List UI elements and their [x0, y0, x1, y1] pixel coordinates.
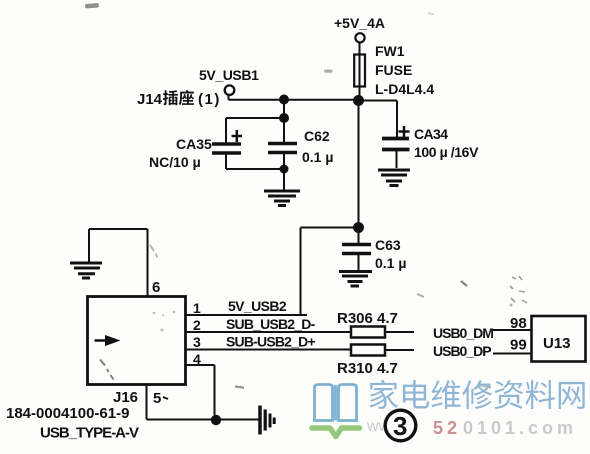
wire [229, 95, 360, 100]
ground [378, 170, 410, 186]
wire [359, 101, 397, 139]
svg-text:J16: J16 [113, 389, 138, 406]
svg-text:R310 4.7: R310 4.7 [337, 360, 398, 377]
svg-text:0.1 µ: 0.1 µ [375, 255, 406, 271]
pin 5 [147, 385, 259, 420]
svg-text:5V_USB1: 5V_USB1 [199, 67, 259, 83]
connector J16 [88, 297, 186, 407]
ground [264, 191, 300, 206]
svg-text:0.1 µ: 0.1 µ [302, 149, 333, 165]
svg-text:+5V_4A: +5V_4A [334, 15, 385, 31]
pin 6 [89, 229, 160, 297]
capacitor CA35 [149, 118, 284, 170]
svg-text:99: 99 [510, 337, 527, 354]
wire [358, 101, 360, 228]
pin 4 [186, 351, 215, 420]
wire [283, 99, 285, 118]
svg-text:USB0_DM: USB0_DM [433, 325, 493, 341]
junction [280, 165, 289, 174]
resistor R306 [337, 310, 414, 338]
wire [301, 228, 359, 316]
svg-text:5: 5 [153, 390, 161, 407]
svg-text:SUB_USB2_D-: SUB_USB2_D- [226, 316, 316, 332]
ground [339, 272, 372, 287]
svg-text:CA34: CA34 [414, 126, 448, 142]
pin 1 net 5V_USB2 [186, 298, 307, 316]
svg-text:6: 6 [152, 279, 160, 296]
junction [353, 95, 364, 106]
svg-text:C63: C63 [375, 237, 401, 253]
fuse FW1 [354, 43, 434, 97]
svg-text:FW1: FW1 [375, 43, 405, 59]
svg-text:(1): (1) [198, 91, 221, 108]
svg-text:184-0004100-61-9: 184-0004100-61-9 [6, 405, 129, 422]
IC U13 [532, 316, 586, 362]
svg-text:SUB-USB2_D+: SUB-USB2_D+ [226, 334, 315, 350]
svg-text:1: 1 [193, 300, 201, 316]
svg-text:USB_TYPE-A-V: USB_TYPE-A-V [40, 425, 139, 442]
svg-text:NC/10 µ: NC/10 µ [149, 154, 201, 170]
svg-text:CA35: CA35 [176, 136, 212, 152]
ground [70, 263, 102, 278]
junction [279, 95, 289, 105]
wire [359, 43, 361, 101]
net USB0_DP pin 99 [433, 337, 532, 360]
watermark [312, 380, 585, 441]
svg-text:USB0_DP: USB0_DP [433, 343, 491, 359]
svg-text:52: 52 [433, 418, 461, 438]
pin 3 net SUB-USB2_D+ [186, 334, 351, 351]
svg-text:3: 3 [393, 411, 407, 441]
pin 2 net SUB_USB2_D- [186, 316, 351, 333]
svg-text:R306 4.7: R306 4.7 [337, 310, 398, 327]
junction [279, 113, 289, 123]
node 5V_USB1 J14 [137, 67, 259, 108]
wire [283, 169, 285, 190]
svg-text:2: 2 [193, 317, 201, 333]
svg-text:0101.com: 0101.com [463, 418, 577, 438]
resistor R310 [337, 345, 414, 378]
ground [260, 406, 274, 435]
junction [353, 222, 364, 233]
svg-text:3: 3 [193, 334, 201, 350]
node +5V_4A [334, 15, 385, 42]
svg-text:FUSE: FUSE [375, 62, 412, 78]
svg-text:U13: U13 [543, 335, 571, 352]
svg-text:5V_USB2: 5V_USB2 [228, 298, 287, 314]
net USB0_DM pin 98 [433, 315, 532, 341]
svg-text:100 µ /16V: 100 µ /16V [414, 144, 479, 160]
svg-text:L-D4L4.4: L-D4L4.4 [375, 81, 434, 97]
capacitor CA34 [382, 126, 479, 168]
svg-text:J14: J14 [137, 91, 163, 108]
svg-text:C62: C62 [304, 128, 330, 144]
junction [211, 415, 221, 425]
capacitor C62 [268, 118, 333, 169]
capacitor C63 [342, 228, 406, 272]
svg-text:98: 98 [510, 315, 527, 332]
